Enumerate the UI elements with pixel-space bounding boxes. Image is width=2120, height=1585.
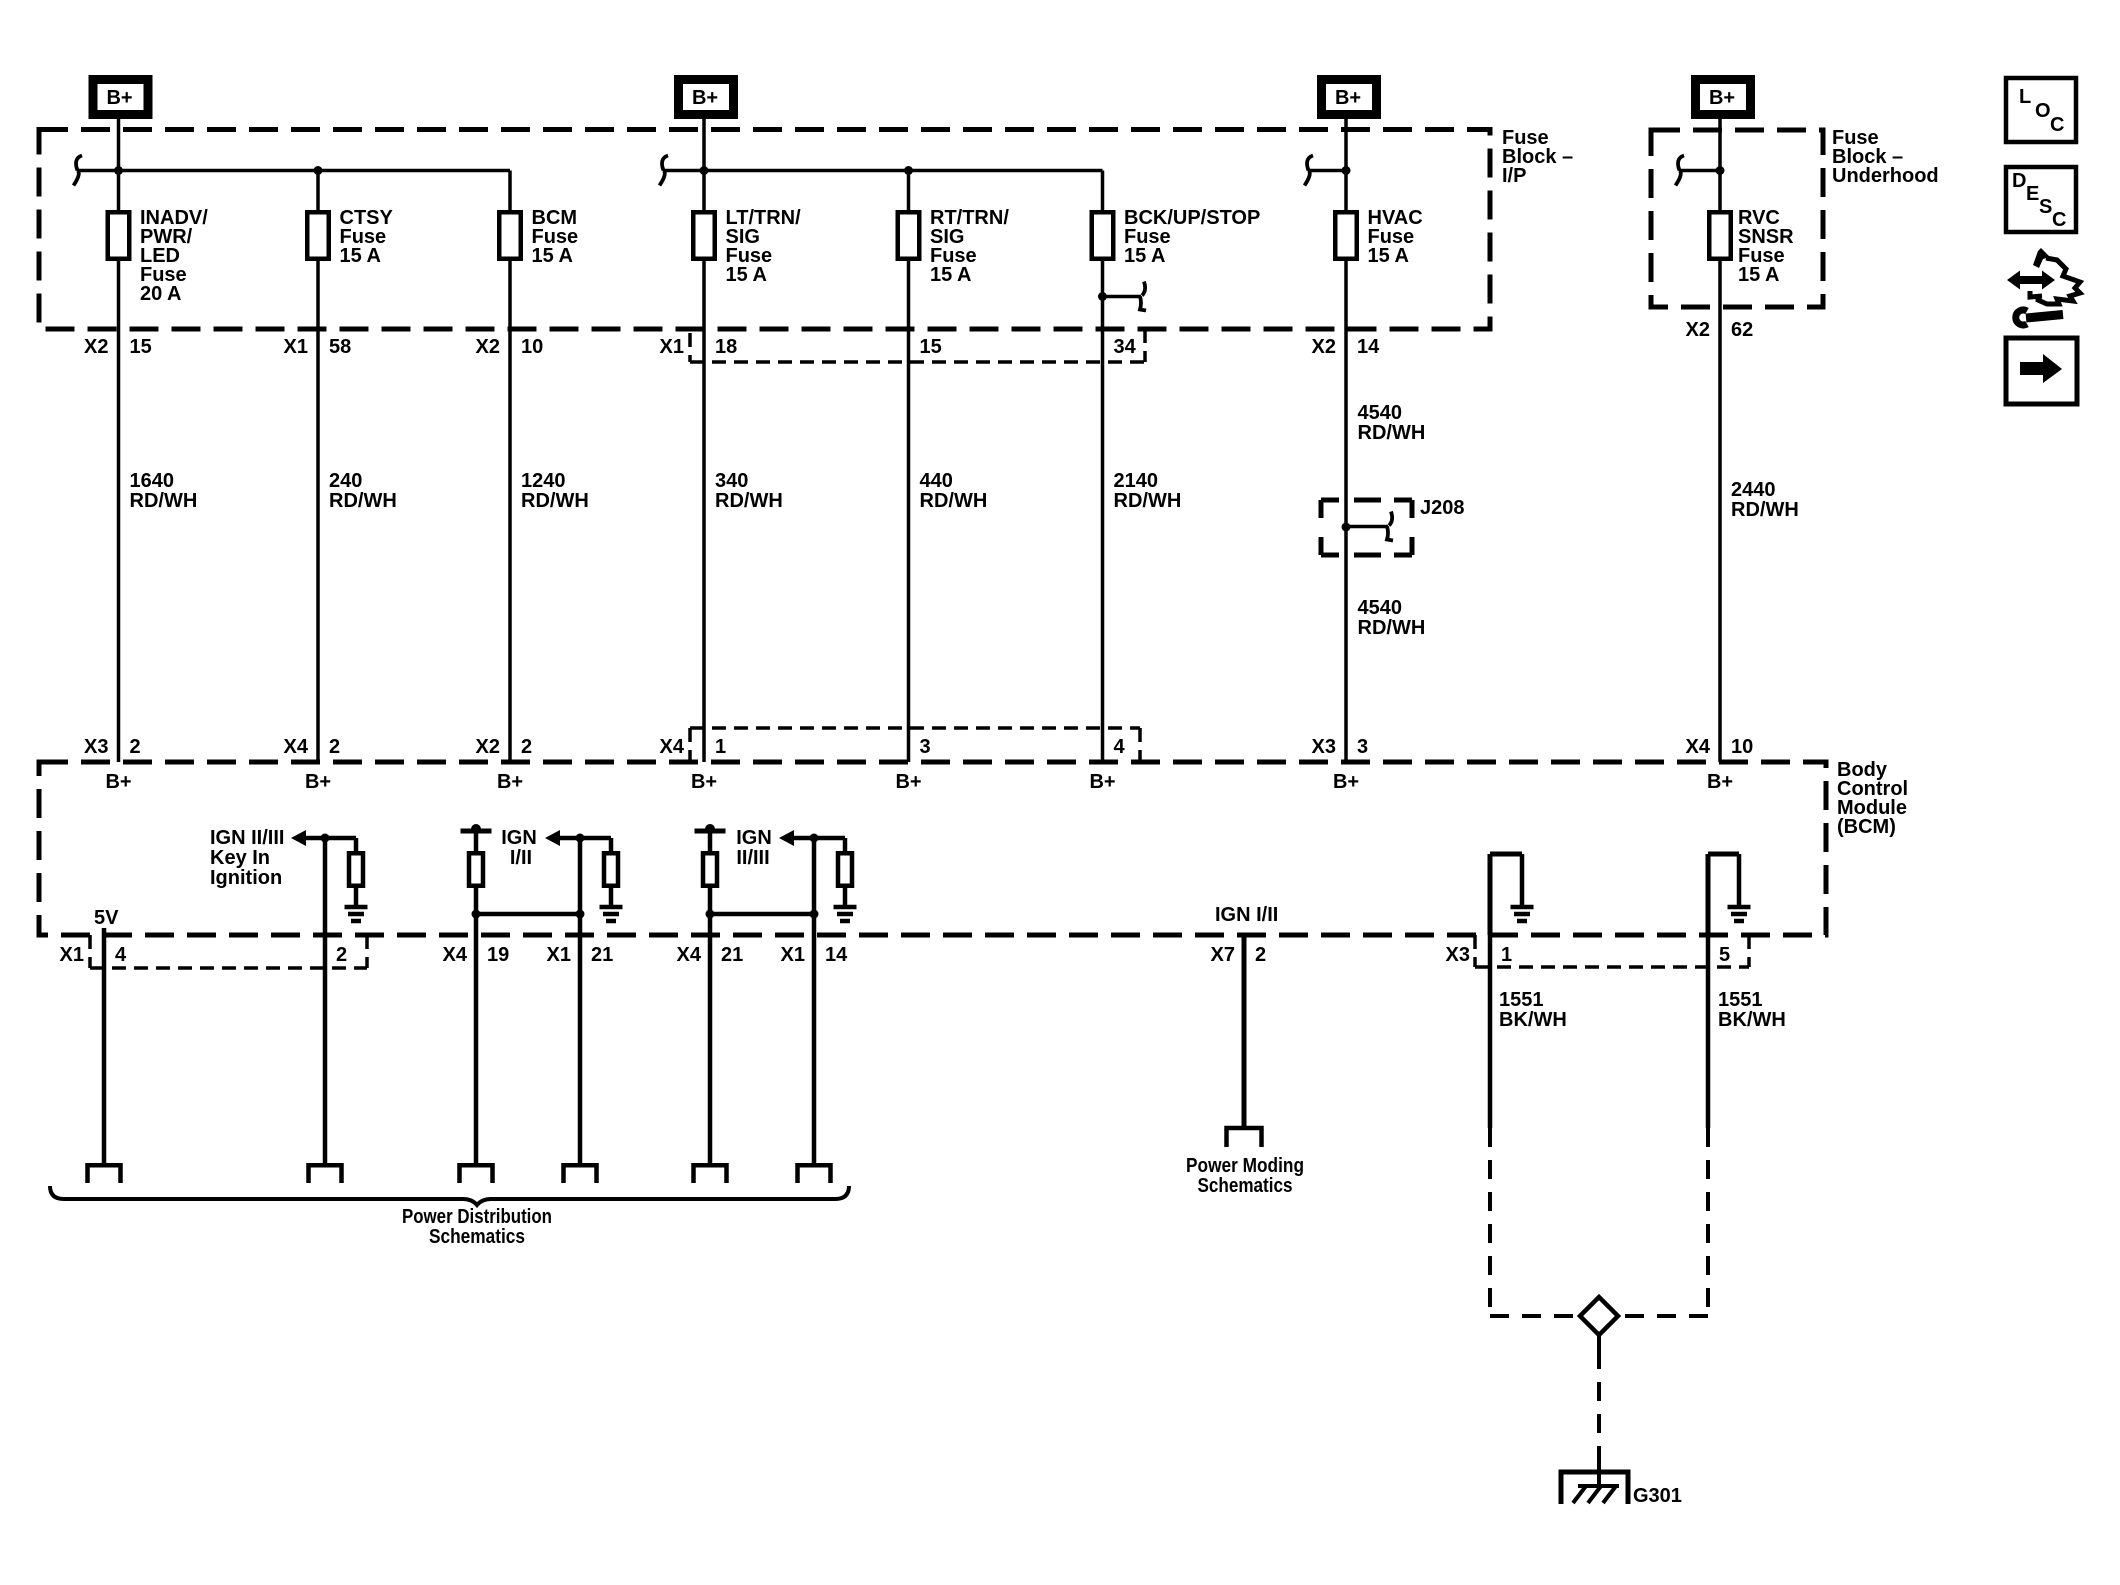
svg-text:4: 4 (115, 944, 127, 966)
svg-text:2: 2 (336, 944, 347, 966)
svg-text:5V: 5V (94, 907, 119, 929)
svg-text:IGN II/III: IGN II/III (210, 827, 284, 849)
svg-text:RD/WH: RD/WH (920, 490, 988, 512)
svg-text:B+: B+ (497, 771, 523, 793)
svg-text:1: 1 (715, 736, 726, 758)
svg-text:B+: B+ (305, 771, 331, 793)
svg-text:RD/WH: RD/WH (521, 490, 589, 512)
svg-text:J208: J208 (1420, 497, 1465, 519)
svg-text:4540: 4540 (1358, 402, 1403, 424)
svg-text:440: 440 (920, 470, 953, 492)
svg-text:X2: X2 (476, 736, 500, 758)
svg-text:18: 18 (715, 336, 737, 358)
svg-text:I/II: I/II (510, 847, 532, 869)
svg-text:RD/WH: RD/WH (1358, 617, 1426, 639)
svg-text:B+: B+ (105, 771, 131, 793)
svg-text:G301: G301 (1633, 1485, 1682, 1507)
svg-text:3: 3 (920, 736, 931, 758)
svg-text:58: 58 (329, 336, 351, 358)
svg-text:BK/WH: BK/WH (1499, 1009, 1567, 1031)
svg-text:X3: X3 (84, 736, 108, 758)
svg-text:IGN I/II: IGN I/II (1215, 904, 1278, 926)
svg-text:X2: X2 (84, 336, 108, 358)
svg-text:Ignition: Ignition (210, 867, 282, 889)
svg-text:4540: 4540 (1358, 597, 1403, 619)
svg-text:10: 10 (521, 336, 543, 358)
svg-text:X4: X4 (660, 736, 685, 758)
svg-text:20 A: 20 A (140, 283, 182, 305)
svg-text:21: 21 (721, 944, 743, 966)
svg-text:I/P: I/P (1502, 165, 1526, 187)
svg-text:15 A: 15 A (532, 245, 574, 267)
svg-text:15 A: 15 A (930, 264, 972, 286)
svg-text:15 A: 15 A (340, 245, 382, 267)
svg-text:3: 3 (1357, 736, 1368, 758)
svg-text:C: C (2052, 209, 2066, 231)
svg-text:X4: X4 (443, 944, 468, 966)
svg-text:S: S (2039, 196, 2052, 218)
svg-text:B+: B+ (1333, 771, 1359, 793)
svg-text:II/III: II/III (736, 847, 769, 869)
svg-text:19: 19 (487, 944, 509, 966)
svg-text:Underhood: Underhood (1832, 165, 1939, 187)
svg-text:2: 2 (130, 736, 141, 758)
svg-text:1640: 1640 (130, 470, 175, 492)
svg-text:2: 2 (521, 736, 532, 758)
svg-text:4: 4 (1114, 736, 1126, 758)
svg-text:D: D (2012, 170, 2026, 192)
svg-text:15 A: 15 A (1738, 264, 1780, 286)
svg-text:X1: X1 (660, 336, 684, 358)
svg-text:1: 1 (1501, 944, 1512, 966)
svg-text:B+: B+ (895, 771, 921, 793)
svg-text:15 A: 15 A (1368, 245, 1410, 267)
svg-text:10: 10 (1731, 736, 1753, 758)
svg-text:IGN: IGN (501, 827, 537, 849)
svg-text:X4: X4 (677, 944, 702, 966)
svg-text:14: 14 (1357, 336, 1380, 358)
svg-text:B+: B+ (1709, 87, 1735, 109)
svg-text:RD/WH: RD/WH (1358, 422, 1426, 444)
svg-text:RD/WH: RD/WH (1114, 490, 1182, 512)
svg-text:Power Distribution: Power Distribution (402, 1206, 552, 1228)
svg-text:L: L (2019, 86, 2031, 108)
svg-text:1551: 1551 (1718, 989, 1763, 1011)
svg-text:X2: X2 (476, 336, 500, 358)
svg-text:X4: X4 (284, 736, 309, 758)
svg-text:240: 240 (329, 470, 362, 492)
svg-text:Schematics: Schematics (1198, 1175, 1293, 1197)
svg-text:X7: X7 (1211, 944, 1235, 966)
svg-text:B+: B+ (691, 771, 717, 793)
svg-text:Key In: Key In (210, 847, 270, 869)
svg-text:O: O (2035, 100, 2051, 122)
svg-text:1240: 1240 (521, 470, 566, 492)
svg-text:2440: 2440 (1731, 479, 1776, 501)
svg-text:X3: X3 (1446, 944, 1470, 966)
svg-text:X2: X2 (1312, 336, 1336, 358)
svg-text:Schematics: Schematics (429, 1226, 525, 1248)
svg-text:X1: X1 (284, 336, 308, 358)
svg-text:62: 62 (1731, 319, 1753, 341)
svg-text:34: 34 (1114, 336, 1137, 358)
svg-text:15 A: 15 A (1124, 245, 1166, 267)
svg-text:X1: X1 (781, 944, 805, 966)
svg-text:Power Moding: Power Moding (1186, 1155, 1304, 1177)
svg-text:X3: X3 (1312, 736, 1336, 758)
svg-text:BK/WH: BK/WH (1718, 1009, 1786, 1031)
svg-text:15 A: 15 A (726, 264, 768, 286)
svg-text:RD/WH: RD/WH (329, 490, 397, 512)
svg-text:X4: X4 (1686, 736, 1711, 758)
svg-text:2140: 2140 (1114, 470, 1159, 492)
svg-text:B+: B+ (106, 87, 132, 109)
svg-text:C: C (2050, 114, 2064, 136)
svg-text:14: 14 (825, 944, 848, 966)
svg-text:2: 2 (329, 736, 340, 758)
svg-text:21: 21 (591, 944, 613, 966)
svg-text:340: 340 (715, 470, 748, 492)
svg-text:X1: X1 (60, 944, 84, 966)
svg-text:(BCM): (BCM) (1837, 816, 1896, 838)
svg-text:IGN: IGN (736, 827, 772, 849)
svg-text:B+: B+ (1707, 771, 1733, 793)
svg-text:RD/WH: RD/WH (1731, 499, 1799, 521)
svg-text:X1: X1 (547, 944, 571, 966)
svg-text:RD/WH: RD/WH (130, 490, 198, 512)
svg-text:B+: B+ (1089, 771, 1115, 793)
svg-text:15: 15 (920, 336, 942, 358)
svg-text:2: 2 (1255, 944, 1266, 966)
svg-text:RD/WH: RD/WH (715, 490, 783, 512)
svg-text:15: 15 (130, 336, 152, 358)
svg-text:B+: B+ (1335, 87, 1361, 109)
svg-text:X2: X2 (1686, 319, 1710, 341)
svg-text:1551: 1551 (1499, 989, 1544, 1011)
svg-text:B+: B+ (692, 87, 718, 109)
svg-text:E: E (2026, 183, 2039, 205)
svg-text:5: 5 (1719, 944, 1730, 966)
